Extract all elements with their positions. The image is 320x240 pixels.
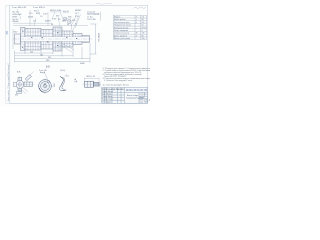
svg-text:z: z (136, 19, 137, 21)
svg-text:Ø30: Ø30 (68, 17, 71, 19)
svg-text:Г(5:1): Г(5:1) (60, 70, 66, 72)
underline of thread label (50, 11, 62, 13)
darker arc bottom-left (39, 88, 43, 92)
left column blue stamp speck (6, 31, 8, 34)
svg-text:Число зубьев: Число зубьев (114, 19, 125, 21)
balloon labels right of center (75, 10, 82, 18)
blob bottom-left of seal (59, 86, 62, 91)
pin top dimension line (85, 78, 100, 81)
svg-text:Ø40: Ø40 (14, 32, 17, 34)
title block name cell (126, 95, 144, 100)
svg-text:Пров. Петров: Пров. Петров (102, 94, 112, 96)
svg-text:2,5: 2,5 (142, 17, 145, 19)
svg-text:Делит. диаметр: Делит. диаметр (114, 35, 127, 37)
svg-text:Исходный контур: Исходный контур (114, 26, 128, 29)
lower dimension lines (15, 43, 91, 60)
right bearing block (62, 31, 73, 47)
svg-text:Угол наклона зуба: Угол наклона зуба (114, 22, 129, 24)
position balloons (63, 17, 71, 23)
svg-text:Направление линии: Направление линии (114, 25, 131, 27)
vertical dimension right (90, 24, 97, 54)
main housing block (25, 29, 41, 51)
svg-text:β: β (136, 22, 137, 24)
dimension line top-left (13, 23, 88, 25)
shaft end right (82, 36, 90, 43)
leaders below flange (20, 88, 28, 94)
shaft to right (24, 82, 33, 86)
svg-text:Межос. расстояние: Межос. расстояние (114, 38, 130, 40)
scattered dimension values (28, 11, 77, 26)
left column rotated labels (7, 64, 10, 101)
gear hub left (41, 30, 53, 50)
internal step lines (41, 27, 85, 51)
top leader lines (17, 9, 72, 30)
svg-text:1×45°: 1×45° (52, 18, 57, 21)
shaft step right (73, 34, 82, 45)
svg-text:Ø90: Ø90 (53, 84, 55, 87)
balloon leaders (64, 14, 81, 30)
svg-text:Б-Б: Б-Б (46, 67, 50, 69)
inner circle (41, 82, 50, 91)
svg-text:М24×1,5-6Н: М24×1,5-6Н (50, 9, 62, 12)
left stub of Б-Б (14, 82, 17, 86)
left bearing cap (21, 28, 26, 51)
svg-text:Разраб. Иванов: Разраб. Иванов (102, 91, 113, 93)
svg-text:Ra2: Ra2 (34, 11, 37, 13)
bolt hole (48, 81, 50, 83)
svg-text:34: 34 (142, 19, 144, 21)
seal profile S-curve (60, 77, 66, 91)
hub circle (43, 84, 46, 87)
top-left dimension text (12, 6, 62, 12)
pin centerline (83, 83, 102, 85)
svg-text:2×45°: 2×45° (43, 13, 48, 16)
svg-text:Коэф. смещения: Коэф. смещения (114, 29, 128, 32)
centerlines (38, 79, 53, 94)
svg-text:85: 85 (142, 35, 144, 37)
svg-text:Ø45H7: Ø45H7 (45, 21, 51, 23)
hub keyway (44, 84, 46, 85)
svg-text:Ø40k6: Ø40k6 (13, 21, 20, 23)
svg-text:120: 120 (142, 38, 145, 40)
pin internal lines (88, 81, 100, 87)
svg-text:Степень точности: Степень точности (114, 33, 129, 35)
title block small labels (102, 87, 124, 103)
vertical hub (18, 78, 22, 92)
paper background (0, 0, 150, 106)
pin body (85, 81, 100, 87)
leader to hole (44, 72, 48, 82)
bolt at 45 deg (25, 75, 31, 81)
svg-text:395*: 395* (46, 60, 50, 62)
svg-text:Т.контр. Белов: Т.контр. Белов (102, 96, 112, 98)
svg-text:Ø62H7: Ø62H7 (75, 10, 82, 12)
svg-text:Вал в сборе: Вал в сборе (127, 95, 139, 97)
left vertical dimension (12, 29, 14, 49)
leader arrow (65, 74, 67, 76)
leader to bolt (30, 72, 34, 76)
left frame column (7, 5, 10, 103)
svg-text:—: — (136, 27, 138, 29)
svg-text:185: 185 (40, 54, 43, 56)
sheet area (6, 5, 148, 103)
faint pencil note above frame, top center (96, 3, 112, 4)
svg-text:М12×1,25: М12×1,25 (87, 75, 95, 78)
svg-text:1,6: 1,6 (40, 16, 43, 18)
svg-text:Модуль: Модуль (114, 17, 120, 19)
svg-text:каф. ТММ: каф. ТММ (140, 101, 148, 104)
tolerance callout stack top-left (13, 12, 23, 24)
svg-text:12,5: 12,5 (29, 13, 33, 15)
svg-text:0: 0 (142, 30, 143, 32)
svg-text:Н.контр. Серов: Н.контр. Серов (102, 99, 113, 101)
svg-text:Ø25: Ø25 (15, 95, 18, 97)
outer circle (39, 80, 52, 93)
diagonal leaders lower right (60, 44, 74, 52)
left shaft end (15, 34, 21, 44)
svg-text:5. Обкатать без нагрузки 2 час: 5. Обкатать без нагрузки 2 часа. (104, 80, 133, 82)
svg-text:110: 110 (33, 21, 36, 23)
housing internal lines (25, 29, 41, 51)
fourth dimension line (15, 60, 91, 63)
centerlines (13, 76, 34, 93)
svg-text:120: 120 (30, 52, 33, 54)
svg-text:Б-Б: Б-Б (17, 72, 21, 74)
svg-text:ГОСТ 380: ГОСТ 380 (87, 19, 96, 21)
svg-text:Утв. Сидоров: Утв. Сидоров (102, 101, 112, 103)
dim tick right (99, 81, 101, 88)
hatching texture (21, 28, 73, 51)
svg-text:Ø62H7/k6: Ø62H7/k6 (97, 33, 99, 42)
text block bracket line (100, 12, 102, 21)
small part below (17, 92, 22, 94)
centerline (13, 38, 92, 40)
gear block center (53, 27, 62, 51)
flange circle (16, 80, 24, 88)
main frame (10, 5, 148, 103)
svg-text:1в. Обкатку проводить 30 мин.: 1в. Обкатку проводить 30 мин. (103, 85, 130, 87)
svg-text:Ø52k6: Ø52k6 (28, 17, 33, 19)
svg-text:352: 352 (48, 57, 51, 59)
svg-text:1:2: 1:2 (145, 94, 147, 96)
svg-text:Ø55: Ø55 (36, 13, 39, 15)
svg-text:2 отв. М10×1: 2 отв. М10×1 (33, 6, 46, 9)
svg-text:Ø72: Ø72 (56, 16, 59, 18)
svg-text:d: d (136, 35, 137, 37)
shaft bore band (21, 37, 90, 42)
dark specks (arrowheads, small texts) (22, 31, 77, 48)
svg-text:МЧ00.18.00.00 СБ: МЧ00.18.00.00 СБ (126, 89, 147, 92)
svg-text:2 отв. М8×1-7Н: 2 отв. М8×1-7Н (12, 6, 27, 9)
svg-text:Ø48f7: Ø48f7 (80, 63, 85, 65)
